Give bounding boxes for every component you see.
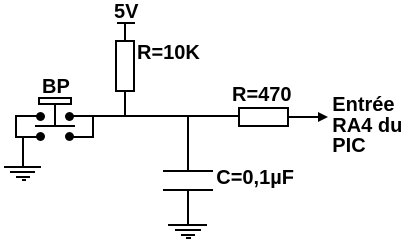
push button BP terminal dot bottom-left [36,132,45,141]
label R=470 [232,84,292,107]
capacitor C1 bottom plate [163,189,213,191]
wire C1 to right ground [187,191,189,224]
push button BP contact bar [35,125,75,127]
wire left rail vertical [15,115,17,137]
label 5V supply [114,1,138,24]
label R=10K [137,42,200,65]
push button BP cap [38,97,72,105]
wire top-left terminal to left rail [15,115,40,117]
push button BP actuator stem [54,105,56,126]
wire left rail to bottom-left terminal [15,136,40,138]
wire node A to capacitor C1 [187,117,189,170]
wire right rail to bottom-right terminal [69,136,94,138]
push button BP terminal dot top-right [65,112,74,121]
push button BP terminal dot bottom-right [65,132,74,141]
wire 5V terminal to R1 top [124,24,126,40]
capacitor C1 top plate [163,170,213,172]
wire to left ground [22,137,24,167]
label BP [42,76,70,99]
ground right bar 3 [181,234,195,236]
ground left bar 3 [16,176,30,178]
label Entree RA4 du PIC [332,95,402,157]
arrow head to PIC input [318,112,328,122]
ground right bar 1 [168,224,207,226]
label C=0,1uF [216,167,294,190]
wire top-right terminal right rail vertical [92,115,94,137]
push button BP terminal dot top-left [36,112,45,121]
resistor R2 body [238,107,289,127]
resistor R1 body [115,40,135,92]
wire R2 to arrow [289,116,319,118]
ground left bar 4 [22,179,26,181]
wire node A horizontal bus [68,115,239,117]
ground right bar 4 [186,237,191,239]
ground left bar 1 [4,166,41,168]
wire R1 bottom to node A [124,92,126,117]
ground left bar 2 [10,171,35,173]
ground right bar 2 [175,229,201,231]
5V supply terminal bar [117,22,135,24]
